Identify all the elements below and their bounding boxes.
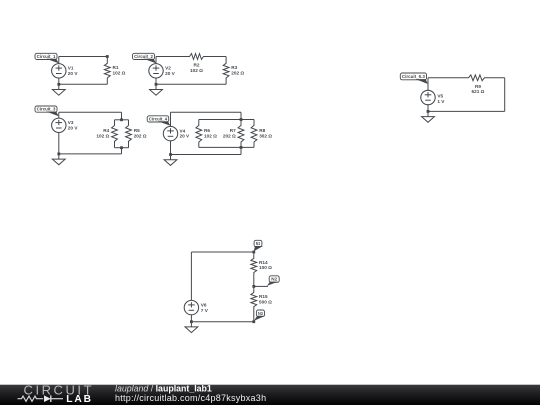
svg-text:1 V: 1 V [437, 99, 445, 104]
voltage source V2 [149, 57, 163, 85]
svg-text:N2: N2 [271, 277, 277, 282]
label R3 202 ohm [231, 65, 244, 75]
wire top circuit 4 [171, 111, 242, 113]
flag N1 [254, 240, 263, 251]
footer url line [115, 393, 266, 403]
node dot source bottom circuit 2 [155, 83, 158, 86]
ground circuit 4 [164, 155, 177, 166]
svg-text:N3: N3 [258, 311, 263, 316]
label R4 102 ohm [96, 128, 109, 138]
wire feed down bottom circuit 4 [240, 147, 242, 154]
svg-text:Circuit_4: Circuit_4 [149, 116, 168, 121]
node dot N1 [252, 251, 255, 254]
svg-text:202 Ω: 202 Ω [231, 70, 244, 75]
wire top circuit 3 [59, 111, 122, 113]
wire feed down circuit 3 [121, 112, 123, 120]
label V1 20 V [68, 66, 79, 76]
svg-text:V5: V5 [437, 94, 443, 99]
svg-text:102 Ω: 102 Ω [190, 68, 203, 73]
wire bottom rail circuit 4 [171, 154, 242, 156]
svg-text:Circuit_2: Circuit_2 [134, 54, 153, 59]
svg-text:LAB: LAB [66, 394, 93, 405]
flag Circuit_4 [147, 116, 170, 126]
label V5 1 V [437, 94, 445, 104]
svg-text:Circuit_3: Circuit_3 [37, 107, 56, 112]
node dot source bottom V6 [190, 320, 193, 323]
svg-text:100 Ω: 100 Ω [259, 265, 272, 270]
wire top bar circuit 3 [115, 119, 129, 121]
ground circuit 2 [150, 84, 163, 95]
wire top circuit 1 [59, 56, 108, 58]
node dot bottom bar circuit 4 [240, 146, 243, 149]
label R6 102 ohm [204, 128, 217, 138]
svg-text:V6: V6 [201, 303, 207, 308]
wire right circuit 5 [504, 78, 506, 112]
label R1 102 ohm [113, 65, 126, 75]
svg-text:Circuit_5.3: Circuit_5.3 [402, 74, 425, 79]
node dot N2 [252, 285, 255, 288]
logo resistor-diode squiggle [18, 395, 64, 402]
svg-text:R2: R2 [194, 63, 200, 68]
wire bottom circuit 1 [59, 83, 108, 85]
wire bottom circuit 5 [428, 110, 505, 112]
wire bottom bottom-circuit [191, 321, 253, 323]
node dot source bottom circuit 3 [57, 153, 60, 156]
resistor R6 [196, 120, 202, 148]
svg-text:R5: R5 [134, 128, 140, 133]
node dot source bottom circuit 1 [57, 83, 60, 86]
logo LAB text [66, 394, 93, 405]
flag N3 [254, 310, 266, 321]
resistor R5 [126, 120, 132, 148]
svg-text:7 V: 7 V [201, 308, 209, 313]
node dot source bottom circuit 5 [427, 110, 430, 113]
resistor R9 horizontal [428, 75, 505, 81]
ground circuit 1 [52, 84, 65, 95]
resistor R14 [251, 252, 257, 286]
svg-text:R15: R15 [259, 294, 268, 299]
svg-text:302 Ω: 302 Ω [259, 134, 272, 139]
svg-text:20 V: 20 V [180, 134, 191, 139]
voltage source V4 [163, 112, 177, 154]
svg-text:R3: R3 [231, 65, 237, 70]
flag Circuit_1 [35, 53, 59, 63]
svg-text:V3: V3 [68, 120, 74, 125]
node dot bottom bar circuit 3 [120, 146, 123, 149]
flag Circuit_3 [35, 106, 59, 116]
svg-text:20 V: 20 V [68, 125, 79, 130]
label V4 20 V [180, 128, 191, 138]
svg-text:202 Ω: 202 Ω [134, 134, 147, 139]
wire top bar circuit 4 [199, 119, 254, 121]
svg-text:R4: R4 [103, 128, 109, 133]
wire left bottom-circuit [190, 252, 192, 300]
logo CIRCUIT text [24, 382, 95, 397]
wire bottom circuit 2 [156, 83, 226, 85]
svg-text:R1: R1 [113, 65, 119, 70]
wire feed down circuit 4 [240, 112, 242, 119]
resistor R8 [251, 120, 257, 148]
node dot source bottom circuit 4 [169, 153, 172, 156]
svg-text:Circuit_1: Circuit_1 [37, 54, 56, 59]
svg-text:N1: N1 [256, 241, 261, 246]
wire top bottom-circuit [191, 251, 253, 253]
resistor R7 [238, 120, 244, 148]
flag Circuit_5.3 [400, 73, 428, 84]
label V3 20 V [68, 120, 79, 130]
flag N2 [267, 276, 279, 286]
node dot top bar circuit 4 [240, 118, 243, 121]
label R14 100 ohm [259, 260, 272, 270]
node dot top right circuit 1 [106, 55, 109, 58]
voltage source V3 [52, 112, 66, 154]
resistor R15 [251, 286, 257, 321]
label R7 202 ohm [223, 128, 236, 138]
svg-text:V4: V4 [180, 128, 186, 133]
svg-text:102 Ω: 102 Ω [96, 134, 109, 139]
svg-text:V2: V2 [165, 66, 171, 71]
svg-text:621 Ω: 621 Ω [472, 89, 485, 94]
resistor R3 [223, 57, 229, 85]
ground circuit 3 [52, 154, 65, 165]
svg-text:V1: V1 [68, 66, 74, 71]
label V6 7 V [201, 303, 209, 313]
ground circuit 5 [422, 111, 435, 122]
svg-text:R14: R14 [259, 260, 268, 265]
resistor R4 [112, 120, 118, 148]
svg-text:20 V: 20 V [68, 71, 79, 76]
label R15 500 ohm [259, 294, 272, 304]
svg-text:R8: R8 [259, 128, 265, 133]
node dot N3 [252, 320, 255, 323]
wire bottom rail circuit 3 [59, 153, 122, 155]
svg-text:R7: R7 [230, 128, 236, 133]
voltage source V6 [184, 300, 198, 321]
wire bottom bar circuit 3 [115, 147, 129, 149]
node dot top bar circuit 3 [120, 118, 123, 121]
wire bottom bar circuit 4 [199, 146, 254, 148]
flag Circuit_2 [133, 53, 157, 63]
label R9 621 ohm [472, 84, 485, 94]
label R5 202 ohm [134, 128, 147, 138]
resistor R1 [104, 57, 110, 85]
svg-text:102 Ω: 102 Ω [113, 70, 126, 75]
svg-text:http://circuitlab.com/c4p87ksy: http://circuitlab.com/c4p87ksybxa3h [115, 393, 266, 403]
svg-text:102 Ω: 102 Ω [204, 134, 217, 139]
footer title line [115, 384, 212, 394]
svg-text:R6: R6 [204, 128, 210, 133]
voltage source V1 [52, 57, 66, 85]
wire stub N2 [254, 285, 268, 287]
label V2 20 V [165, 66, 176, 76]
voltage source V5 [421, 78, 435, 112]
footer bar background [0, 385, 540, 405]
svg-text:20 V: 20 V [165, 71, 176, 76]
ground bottom circuit [185, 322, 198, 333]
svg-text:500 Ω: 500 Ω [259, 299, 272, 304]
label R8 302 ohm [259, 128, 272, 138]
wire feed down bottom circuit 3 [121, 148, 123, 154]
label R2 102 ohm [190, 63, 203, 73]
resistor R2 horizontal [156, 54, 226, 60]
svg-text:202 Ω: 202 Ω [223, 134, 236, 139]
